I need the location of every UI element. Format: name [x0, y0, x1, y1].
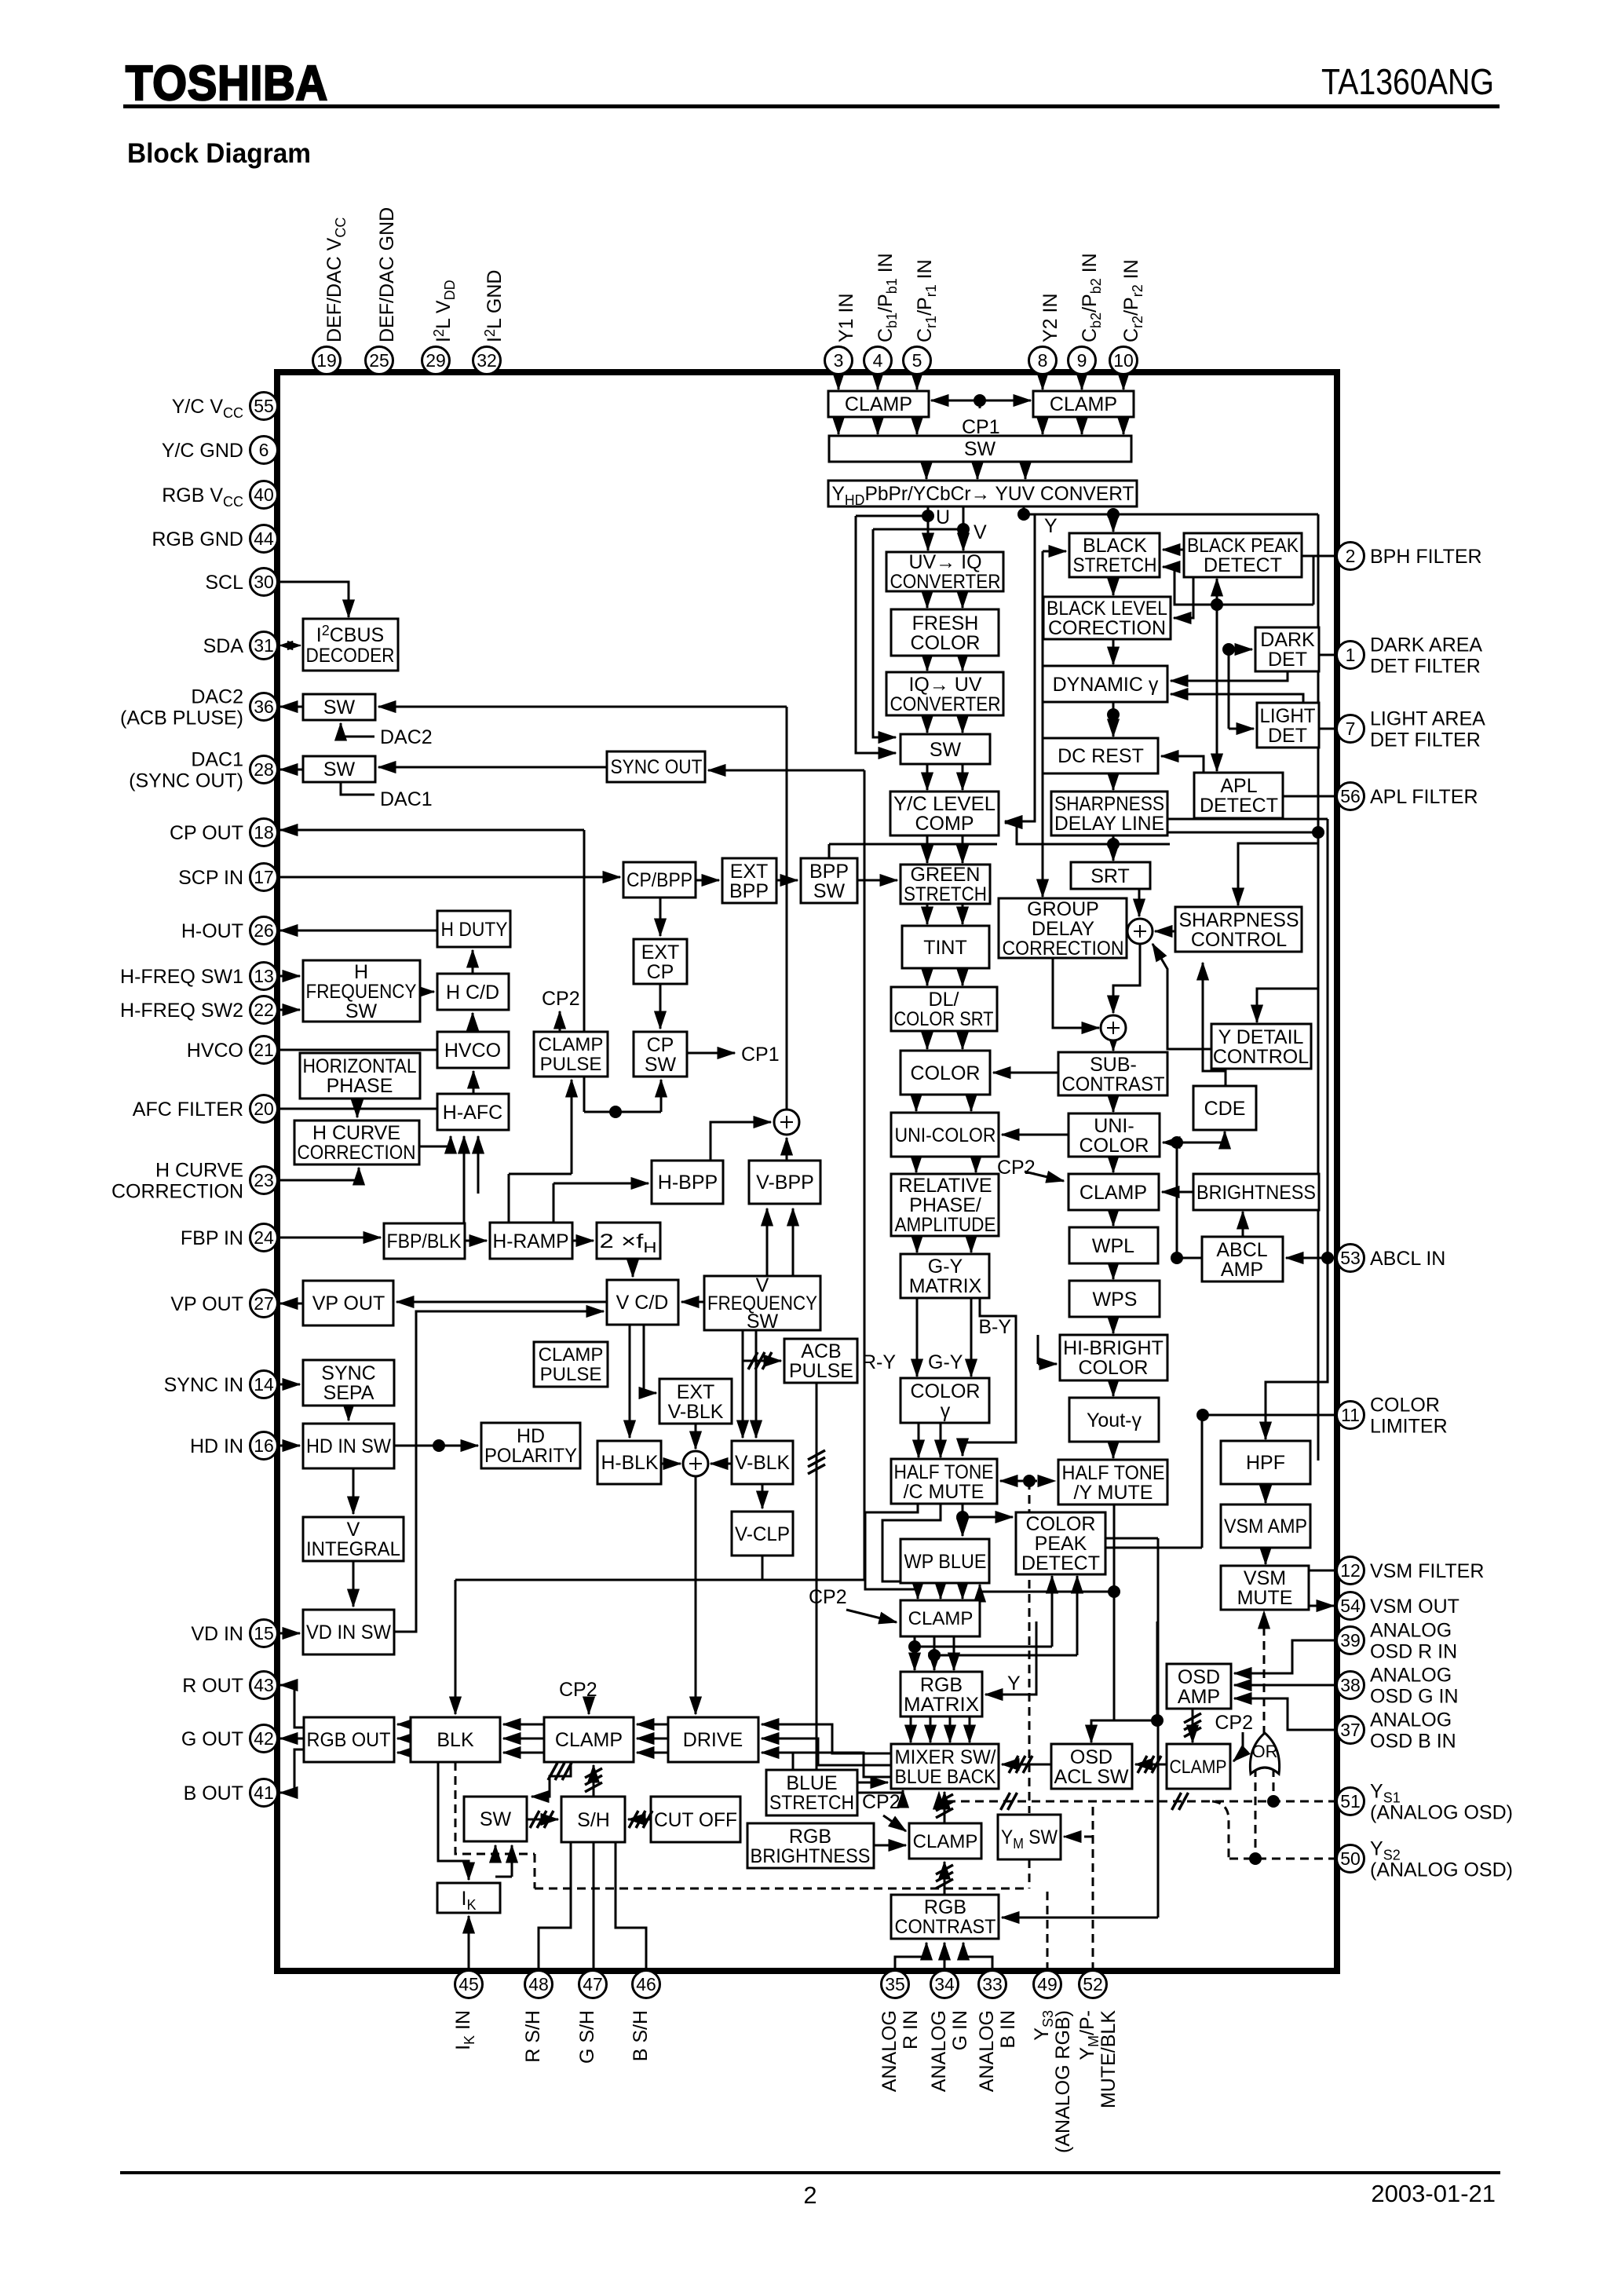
pin 13 — [250, 963, 278, 990]
svg-text:BLACK LEVEL: BLACK LEVEL — [1047, 598, 1167, 620]
header rule — [123, 104, 1500, 108]
dashed Ys2 line — [1229, 1858, 1337, 1860]
block RGB MATRIX — [901, 1672, 982, 1717]
svg-text:COLOR: COLOR — [1370, 1395, 1440, 1417]
wire DAC2 select stub — [341, 723, 374, 737]
svg-text:(ACB PLUSE): (ACB PLUSE) — [120, 707, 243, 729]
wire HI-BRIGHT to Yout gamma — [1112, 1380, 1115, 1396]
block RELATIVE PHASE AMPLITUDE — [891, 1174, 999, 1236]
wire up into COLOR PEAK bottom 1 — [1051, 1576, 1054, 1647]
wire V-BLK to summer C — [711, 1463, 732, 1465]
pin 35 — [882, 1971, 909, 1998]
svg-text:30: 30 — [254, 572, 274, 592]
wire FRESH COLOR to IQ-UV x1226 — [962, 656, 964, 671]
wire WPL to WPS — [1112, 1263, 1115, 1279]
svg-text:Y/C GND: Y/C GND — [162, 440, 243, 462]
block BLUE STRETCH — [766, 1770, 857, 1815]
block Yout gamma — [1069, 1398, 1159, 1442]
wire OSD AMP to CLAMP — [1192, 1709, 1194, 1742]
node srt junction — [1107, 838, 1120, 850]
svg-text:H: H — [354, 961, 368, 983]
svg-text:ANALOG: ANALOG — [1370, 1620, 1452, 1642]
svg-text:SDA: SDA — [203, 635, 244, 657]
wire down into BLK top — [455, 1580, 457, 1714]
block EXT V-BLK — [659, 1379, 732, 1424]
svg-text:G-Y: G-Y — [928, 1351, 963, 1373]
node half tone junction — [956, 1511, 969, 1523]
svg-text:STRETCH: STRETCH — [769, 1792, 854, 1814]
svg-text:PULSE: PULSE — [789, 1360, 853, 1382]
node OSD feed junction — [1151, 1714, 1164, 1727]
pin 26 — [250, 917, 278, 945]
wire COLOR to UNI-COLOR x1167 — [915, 1095, 918, 1111]
wire HI-BRIGHT feed stub — [1037, 1335, 1039, 1364]
svg-text:RELATIVE: RELATIVE — [898, 1175, 992, 1197]
svg-text:DC REST: DC REST — [1058, 745, 1144, 767]
wire H-AFC to HVCO — [473, 1071, 475, 1094]
svg-text:MIXER SW/: MIXER SW/ — [895, 1746, 996, 1768]
block ABCL AMP — [1202, 1237, 1283, 1281]
svg-text:CLAMP: CLAMP — [1080, 1182, 1147, 1204]
wire FBP to H-AFC 2 — [463, 1136, 466, 1223]
dashed long horizontal y2405 — [535, 1888, 1029, 1890]
wire OSD ACL SW to MIXER — [1002, 1764, 1051, 1766]
block SHARPNESS DELAY LINE — [1051, 792, 1167, 835]
svg-text:RGB GND: RGB GND — [152, 528, 243, 550]
pin 22 — [250, 996, 278, 1024]
svg-text:OSD B IN: OSD B IN — [1370, 1731, 1456, 1753]
wire VSM AMP to VSM MUTE — [1265, 1548, 1267, 1564]
wire ACB pulse to DAC2 SW — [378, 706, 787, 708]
wire HALF TONE Y MUTE down — [1113, 1504, 1116, 1720]
svg-text:HD IN SW: HD IN SW — [306, 1435, 391, 1457]
pin 3 — [825, 347, 853, 375]
wire SW to YUV CONVERT x1180 — [926, 462, 928, 479]
svg-text:GROUP: GROUP — [1027, 898, 1099, 920]
bus hatch OSD AMP-CLAMP — [1184, 1713, 1201, 1737]
block SW bottom — [464, 1797, 527, 1841]
svg-text:PEAK: PEAK — [1035, 1533, 1087, 1555]
svg-text:24: 24 — [254, 1227, 274, 1248]
node ABCL junction — [1171, 1252, 1183, 1264]
svg-text:ANALOG: ANALOG — [1370, 1665, 1452, 1687]
svg-text:VD IN: VD IN — [191, 1623, 243, 1645]
dashed pin49 Ys3 — [1047, 1888, 1049, 1971]
wire H CURVE to H-AFC 1 — [419, 1136, 451, 1146]
svg-text:WPL: WPL — [1092, 1235, 1134, 1257]
dashed YM SW down — [1028, 1859, 1031, 1888]
block DARK DET — [1255, 627, 1319, 671]
wire BLACK STRETCH to BLACK LEVEL — [1112, 577, 1115, 595]
svg-text:MATRIX: MATRIX — [909, 1275, 982, 1297]
svg-text:16: 16 — [254, 1435, 274, 1456]
block CLAMP bottom-right — [1167, 1744, 1230, 1789]
svg-text:H-FREQ SW2: H-FREQ SW2 — [120, 1000, 243, 1022]
svg-text:CORRECTION: CORRECTION — [298, 1142, 416, 1164]
wire SW to YUV CONVERT x1306 — [1025, 462, 1027, 479]
svg-text:22: 22 — [254, 1000, 274, 1020]
wire pin53 ABCL IN — [1286, 1257, 1337, 1260]
svg-text:SHARPNESS: SHARPNESS — [1179, 909, 1299, 931]
wire H-RAMP to 2xfH — [572, 1240, 594, 1242]
block UNI-COLOR right — [1069, 1113, 1160, 1157]
wire into DARK DET — [1229, 649, 1252, 651]
pin 16 — [250, 1432, 278, 1460]
wire pin7 LIGHT AREA — [1319, 728, 1337, 730]
wire CP/BPP to EXT BPP — [696, 879, 719, 882]
block YM SW — [998, 1815, 1061, 1859]
pin 9 label — [1079, 253, 1104, 342]
svg-text:HD: HD — [517, 1425, 545, 1447]
block SW DAC1 — [303, 756, 375, 782]
pin 35 label — [879, 2010, 922, 2092]
wire SW to DAC1 pin — [280, 769, 303, 771]
wire DRIVE to CLAMP y2214 — [637, 1738, 668, 1740]
svg-text:CP OUT: CP OUT — [170, 822, 243, 844]
wire HD IN SW to HD POLARITY — [394, 1445, 478, 1447]
svg-text:VSM FILTER: VSM FILTER — [1370, 1560, 1484, 1582]
node CP junction — [609, 1106, 622, 1118]
block FBP/BLK — [384, 1223, 465, 1259]
wire SDA link — [279, 645, 301, 646]
svg-text:27: 27 — [254, 1293, 274, 1314]
block S/H — [561, 1797, 625, 1842]
block LIGHT DET — [1257, 703, 1319, 748]
wire BRIGHTNESS to CLAMP — [1162, 1191, 1193, 1194]
block EXT BPP — [722, 858, 776, 903]
wire pin into CLAMP1 x1118 — [877, 374, 879, 389]
wire Y/C LEVEL to GREEN STRETCH x1226 — [962, 835, 964, 863]
svg-text:COLOR: COLOR — [911, 1380, 981, 1402]
svg-text:MUTE/BLK: MUTE/BLK — [1098, 2010, 1120, 2108]
svg-text:Yout-γ: Yout-γ — [1087, 1409, 1142, 1431]
wire vertical to GROUP DELAY — [1042, 551, 1044, 897]
wire CLAMP to OSD ACL SW — [1135, 1764, 1167, 1766]
wire BLK to IK — [438, 1762, 469, 1880]
wire BLUE STRETCH to MIXER — [857, 1782, 888, 1784]
block V INTEGRAL — [303, 1517, 404, 1561]
pin 2 — [1337, 543, 1364, 570]
svg-text:AMP: AMP — [1178, 1686, 1220, 1708]
block HALF TONE Y MUTE — [1058, 1460, 1167, 1504]
svg-text:ACL SW: ACL SW — [1054, 1766, 1129, 1788]
svg-text:BPH FILTER: BPH FILTER — [1370, 546, 1482, 568]
svg-text:2003-01-21: 2003-01-21 — [1371, 2180, 1496, 2207]
svg-text:1: 1 — [1346, 645, 1356, 665]
svg-text:SW: SW — [747, 1311, 779, 1333]
svg-text:50: 50 — [1340, 1848, 1361, 1869]
pin 41 — [250, 1779, 278, 1807]
svg-text:CP2: CP2 — [542, 988, 580, 1010]
wire pin21 HVCO — [277, 1049, 437, 1051]
wire to SHARPNESS CONTROL — [1238, 843, 1318, 905]
wire BLK to RGB OUT y2196 — [397, 1724, 411, 1726]
wire COLOR gamma to HALF TONE x1198 — [940, 1423, 942, 1457]
svg-text:Cr1/Pr1 IN: Cr1/Pr1 IN — [914, 259, 939, 342]
svg-text:CONTRAST: CONTRAST — [895, 1916, 996, 1938]
dashed Ys1 line — [939, 1792, 1337, 1801]
wire pin35 to RGB CONTRAST — [895, 1943, 926, 1971]
wire V C/D to H-BLK — [629, 1325, 631, 1438]
pin 46 label — [630, 2010, 652, 2061]
block VD IN SW — [303, 1610, 394, 1654]
svg-text:DARK: DARK — [1260, 629, 1315, 651]
pin 24 — [250, 1224, 278, 1252]
wire FRESH COLOR to IQ-UV x1181 — [926, 656, 929, 671]
pin 27 — [250, 1290, 278, 1318]
svg-text:25: 25 — [369, 350, 389, 371]
pin 3 label — [835, 293, 857, 342]
svg-text:Cb2/Pb2 IN: Cb2/Pb2 IN — [1079, 253, 1104, 342]
svg-text:H-AFC: H-AFC — [443, 1102, 502, 1124]
wire up to BPH net — [1313, 556, 1315, 605]
block CLAMP PULSE upper — [534, 1032, 608, 1077]
block IK — [437, 1883, 500, 1913]
wire CP2 into CLAMP right — [1233, 1732, 1243, 1761]
node HD junction — [433, 1439, 445, 1452]
svg-text:ANALOG: ANALOG — [879, 2010, 901, 2092]
svg-text:45: 45 — [458, 1974, 479, 1994]
block H C/D — [437, 974, 509, 1010]
pin 7 — [1337, 715, 1364, 743]
wire H DUTY to H-OUT pin — [280, 930, 437, 932]
svg-text:SW: SW — [480, 1808, 512, 1830]
svg-text:44: 44 — [254, 528, 274, 549]
pin 5 label — [914, 259, 939, 342]
pin 42 — [250, 1725, 278, 1753]
pin 8 — [1029, 347, 1057, 375]
wire SHARPNESS DELAY out upper — [1167, 818, 1328, 821]
wire CLAMP to WPL — [1112, 1210, 1115, 1226]
svg-text:AMPLITUDE: AMPLITUDE — [895, 1214, 996, 1236]
block H-RAMP — [490, 1223, 572, 1259]
dashed elbow x681 — [534, 1854, 536, 1888]
wire vertical to OSD ACL feed — [1156, 1621, 1159, 1720]
wire CP/BPP to EXT CP — [659, 898, 662, 936]
svg-text:IQ→ UV: IQ→ UV — [908, 674, 981, 696]
wire pin37 to OSD AMP — [1234, 1698, 1337, 1730]
block COLOR gamma — [901, 1378, 989, 1423]
svg-text:CONTRAST: CONTRAST — [1062, 1073, 1165, 1095]
wire COLOR gamma to HALF TONE x1170 — [918, 1423, 920, 1457]
svg-text:DELAY LINE: DELAY LINE — [1054, 813, 1164, 835]
wire V C/D to EXT V-BLK — [644, 1325, 656, 1393]
wire into OSD ACL SW top — [1091, 1720, 1157, 1742]
svg-text:VP OUT: VP OUT — [312, 1292, 385, 1314]
svg-text:V-CLP: V-CLP — [735, 1523, 790, 1545]
pin 56 — [1337, 783, 1364, 810]
pin 37 — [1337, 1717, 1364, 1744]
svg-text:Cr2/Pr2 IN: Cr2/Pr2 IN — [1120, 259, 1145, 342]
block CLAMP input1 — [828, 391, 929, 417]
pin 45 label — [452, 2010, 477, 2050]
wire Y branch to Y/C LEVEL COMP upper — [1005, 515, 1035, 821]
svg-text:CLAMP: CLAMP — [539, 1344, 604, 1366]
wire RGB MATRIX to MIXER x1235 — [969, 1717, 971, 1742]
wire Y stub from YUV — [1023, 506, 1025, 514]
svg-text:Y DETAIL: Y DETAIL — [1218, 1026, 1304, 1048]
svg-text:CDE: CDE — [1204, 1098, 1246, 1120]
svg-text:B-Y: B-Y — [978, 1316, 1011, 1338]
block SHARPNESS CONTROL — [1175, 907, 1302, 952]
svg-text:RGB OUT: RGB OUT — [307, 1729, 391, 1751]
wire CLAMP1 to SW x1168 — [916, 417, 919, 434]
svg-text:G IN: G IN — [949, 2010, 971, 2050]
svg-text:Y1 IN: Y1 IN — [835, 293, 857, 342]
wire S/H down pin46 — [616, 1842, 646, 1971]
svg-text:HD IN: HD IN — [190, 1435, 243, 1457]
wire UNI-COLOR right to left — [1002, 1134, 1069, 1136]
pin 49 label — [1031, 2010, 1074, 2153]
wire CLAMP to RGB MATRIX x1165 — [914, 1636, 916, 1670]
wire CLAMP to BLK y2214 — [503, 1738, 544, 1740]
wire pin56 APL FILTER — [1283, 795, 1337, 798]
bus hatch Ys1 dashed 2 — [1172, 1793, 1189, 1810]
block V C/D — [607, 1280, 678, 1325]
wire G-Y into COLOR gamma — [970, 1298, 973, 1377]
svg-text:TA1360ANG: TA1360ANG — [1321, 61, 1494, 102]
footer rule — [120, 2171, 1500, 2174]
svg-text:SCP IN: SCP IN — [178, 867, 243, 889]
wire CP2 arrow into clamp — [846, 1610, 897, 1622]
wire IQ-UV to SW x1181 — [926, 715, 929, 733]
svg-text:G OUT: G OUT — [181, 1728, 243, 1750]
svg-text:14: 14 — [254, 1374, 274, 1395]
wire SW to S/H — [527, 1819, 558, 1821]
block DRIVE — [668, 1717, 758, 1762]
wire V into UV-IQ — [963, 506, 965, 550]
pin 6 — [250, 437, 278, 464]
wire sharpness delay feedback to Y/C LEVEL COMP — [1005, 823, 1170, 844]
svg-text:HPF: HPF — [1246, 1452, 1285, 1474]
wire right from BPH dot — [1217, 604, 1313, 606]
dashed HALF TONE C/Y link — [1000, 1480, 1055, 1483]
svg-text:SCL: SCL — [205, 572, 243, 594]
block HVCO — [437, 1032, 509, 1068]
node ABCL branch junction — [1321, 1252, 1334, 1264]
bus hatch SW-S/H — [530, 1811, 553, 1828]
svg-text:CORECTION: CORECTION — [1048, 617, 1166, 639]
wire into RGB CONTRAST — [1002, 1917, 1158, 1919]
wire HALF TONE to WP BLUE — [962, 1504, 964, 1536]
svg-text:(ANALOG RGB): (ANALOG RGB) — [1052, 2010, 1074, 2153]
svg-text:WP BLUE: WP BLUE — [904, 1551, 987, 1573]
wire IQ-UV to SW x1226 — [962, 715, 964, 733]
svg-text:CONVERTER: CONVERTER — [890, 693, 1001, 715]
pin 53 — [1337, 1245, 1364, 1272]
svg-text:CONVERTER: CONVERTER — [890, 571, 1001, 593]
pin 28 — [250, 756, 278, 784]
wire pin33 to RGB CONTRAST — [963, 1943, 992, 1971]
wire EXT V-BLK to summer C — [695, 1424, 697, 1449]
wire vertical x1475 down — [1157, 1538, 1160, 1918]
svg-text:(SYNC OUT): (SYNC OUT) — [129, 770, 243, 792]
pin 30 — [250, 569, 278, 596]
node clamp out junction 2 — [928, 1649, 941, 1662]
svg-text:ANALOG: ANALOG — [928, 2010, 950, 2092]
node Ys1 junction — [1267, 1795, 1280, 1808]
svg-text:SW: SW — [930, 739, 962, 761]
svg-text:28: 28 — [254, 759, 274, 780]
svg-text:H-BLK: H-BLK — [601, 1452, 659, 1474]
svg-text:INTEGRAL: INTEGRAL — [306, 1538, 400, 1560]
block GREEN STRETCH — [901, 864, 990, 905]
pin 40 — [250, 481, 278, 509]
svg-text:RGB: RGB — [789, 1826, 831, 1848]
wire CLAMP2 to SW x1328 — [1042, 417, 1044, 434]
svg-text:APL: APL — [1220, 775, 1257, 797]
wire CLAMP2 to SW x1378 — [1081, 417, 1083, 434]
block FRESH COLOR — [891, 609, 999, 656]
svg-text:Y/C LEVEL: Y/C LEVEL — [893, 793, 995, 815]
bus hatch ACB PULSE in — [748, 1352, 772, 1369]
svg-text:CP: CP — [647, 1034, 674, 1056]
wire DC REST to SHARPNESS DELAY — [1112, 773, 1115, 790]
wire GROUP DELAY to summer B — [1053, 958, 1099, 1028]
svg-text:17: 17 — [254, 867, 274, 887]
block GROUP DELAY CORRECTION — [999, 898, 1127, 960]
svg-text:VP OUT: VP OUT — [170, 1293, 243, 1315]
svg-text:31: 31 — [254, 635, 274, 656]
block CLAMP mid-right — [1069, 1174, 1159, 1210]
svg-text:HALF TONE: HALF TONE — [1062, 1462, 1165, 1484]
wire vertical x744 — [583, 830, 586, 1112]
svg-text:DET: DET — [1268, 649, 1307, 671]
pin 50 — [1337, 1845, 1364, 1873]
wire B-Y path — [963, 1298, 1016, 1456]
wire pin14 SYNC IN — [277, 1384, 300, 1386]
wire B OUT — [280, 1749, 304, 1793]
wire summer C down to DRIVE — [695, 1477, 697, 1714]
svg-text:R-Y: R-Y — [862, 1351, 896, 1373]
svg-text:38: 38 — [1340, 1675, 1361, 1695]
wire BLACK PEAK to BLACK LEVEL CORECTION — [1174, 577, 1193, 618]
wire CP OUT to pin18 — [280, 829, 584, 832]
svg-text:EXT: EXT — [730, 861, 769, 883]
svg-text:8: 8 — [1038, 350, 1048, 371]
pin 29 label — [431, 280, 458, 342]
block VP OUT — [303, 1281, 393, 1325]
svg-text:26: 26 — [254, 920, 274, 941]
wire BPP SW to GREEN STRETCH — [857, 879, 897, 882]
svg-text:SYNC IN: SYNC IN — [164, 1374, 243, 1396]
pin 20 — [250, 1095, 278, 1123]
block APL DETECT — [1194, 773, 1283, 818]
wire into ACB PULSE — [743, 1360, 781, 1362]
wire CLAMP to MIXER — [944, 1792, 946, 1823]
svg-text:PHASE/: PHASE/ — [909, 1194, 981, 1216]
block H-BLK — [597, 1441, 661, 1484]
svg-text:STRETCH: STRETCH — [1073, 554, 1157, 576]
svg-text:CP2: CP2 — [1215, 1712, 1253, 1734]
block HI-BRIGHT COLOR — [1060, 1335, 1167, 1380]
wire up into BLACK PEAK bottom — [1216, 579, 1218, 605]
wire into LIGHT DET — [1229, 728, 1254, 730]
wire horizontal to CP SW — [584, 1111, 661, 1113]
svg-text:DETECT: DETECT — [1200, 795, 1278, 817]
wire summer A to summer B — [1113, 944, 1140, 1013]
svg-text:46: 46 — [636, 1974, 656, 1994]
pin 39 — [1337, 1627, 1364, 1654]
pin 32 label — [482, 270, 506, 342]
wire 2xfH to V C/D — [632, 1259, 634, 1277]
block SUB-CONTRAST — [1058, 1052, 1167, 1095]
dashed up into SW — [495, 1845, 497, 1854]
svg-text:FBP/BLK: FBP/BLK — [387, 1230, 462, 1252]
bus hatch CLAMP zig — [548, 1763, 572, 1780]
block SRT — [1071, 862, 1150, 889]
svg-text:DECODER: DECODER — [306, 645, 395, 667]
